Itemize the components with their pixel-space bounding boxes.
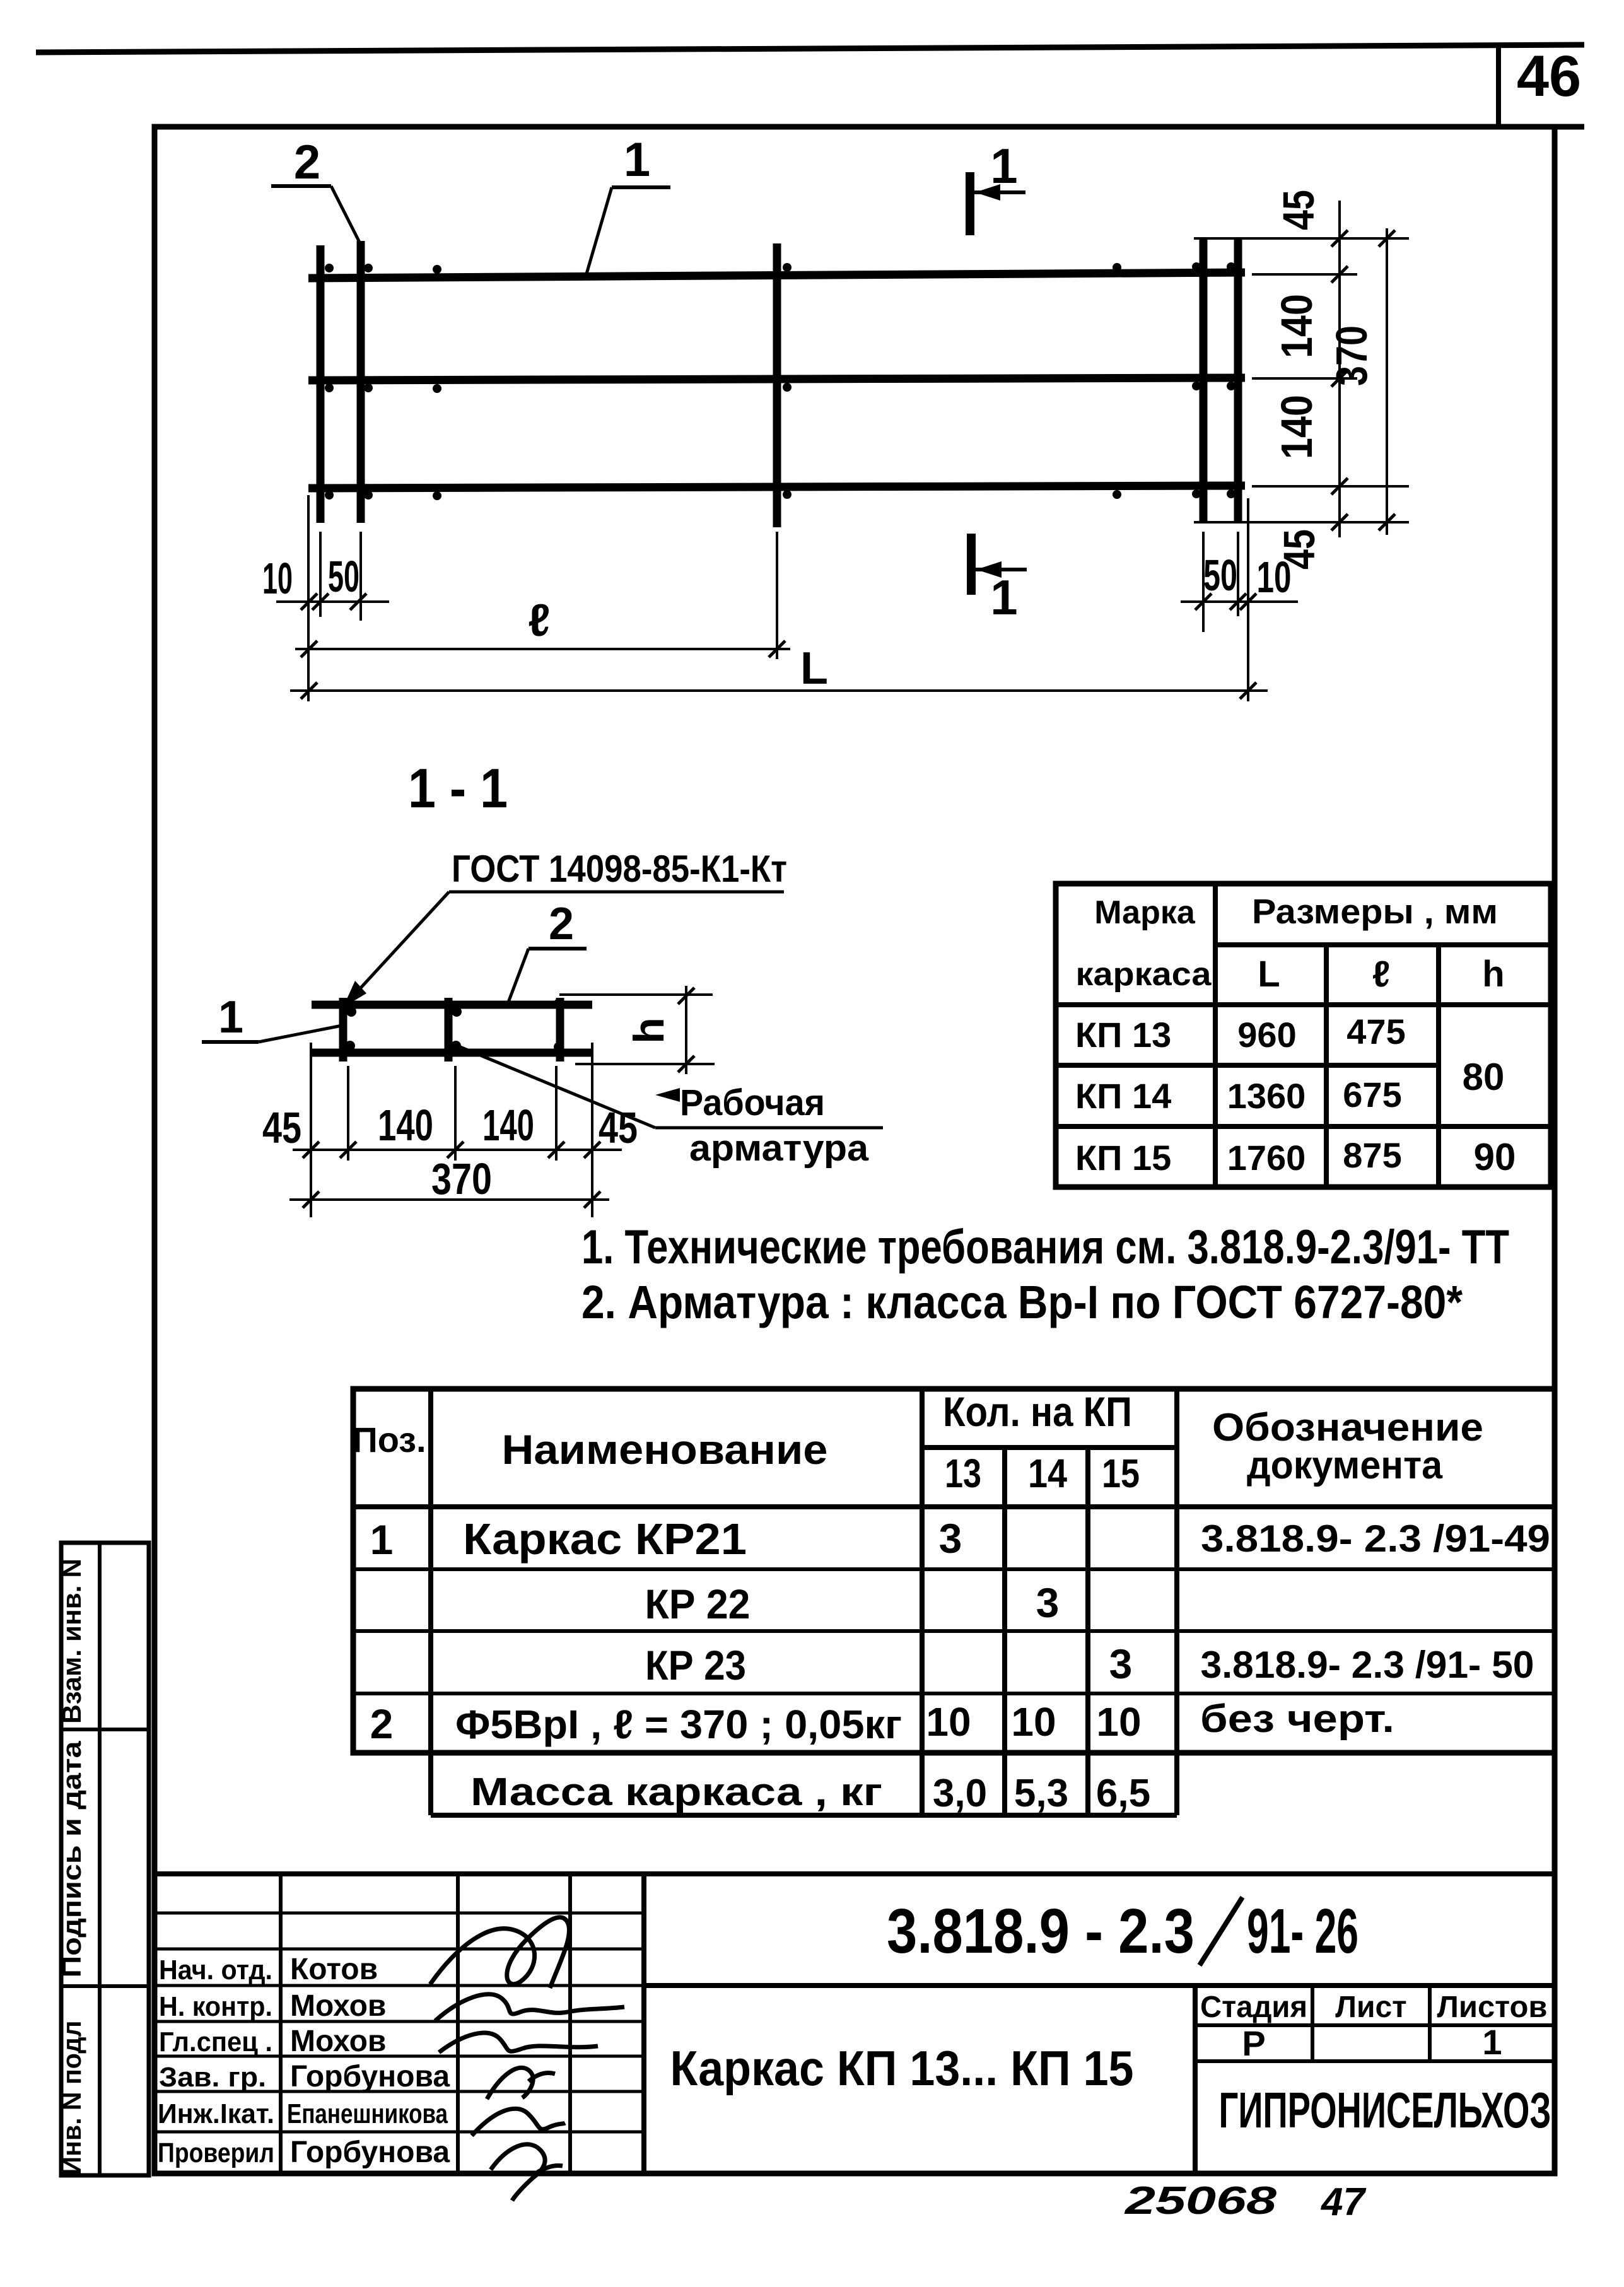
spec h massa bottom xyxy=(431,1813,1177,1818)
sheet top edge line xyxy=(36,45,1584,52)
svg-text:10: 10 xyxy=(1096,1699,1141,1745)
svg-text:Инж.Iкат.: Инж.Iкат. xyxy=(158,2098,274,2129)
svg-text:Н. контр.: Н. контр. xyxy=(159,1991,272,2022)
svg-text:2: 2 xyxy=(370,1700,394,1747)
svg-text:10: 10 xyxy=(1011,1699,1056,1745)
svg-text:КР 23: КР 23 xyxy=(645,1642,746,1688)
svg-text:3.818.9- 2.3 /91- 50: 3.818.9- 2.3 /91- 50 xyxy=(1201,1644,1534,1686)
svg-text:Епанешникова: Епанешникова xyxy=(287,2098,448,2129)
svg-text:ГОСТ 14098-85-К1-Кт: ГОСТ 14098-85-К1-Кт xyxy=(452,848,787,890)
svg-text:3.818.9- 2.3 /91-49: 3.818.9- 2.3 /91-49 xyxy=(1201,1518,1550,1560)
svg-text:Котов: Котов xyxy=(290,1953,378,1986)
svg-text:без черт.: без черт. xyxy=(1200,1697,1394,1741)
svg-text:Мохов: Мохов xyxy=(290,1989,386,2023)
svg-text:1 - 1: 1 - 1 xyxy=(408,757,508,819)
svg-text:Проверил: Проверил xyxy=(158,2138,274,2168)
stadia h-lines xyxy=(1195,2023,1555,2027)
spec h header bottom xyxy=(353,1504,1555,1509)
svg-text:Ф5ВрI , ℓ = 370 ; 0,05кг: Ф5ВрI , ℓ = 370 ; 0,05кг xyxy=(455,1702,902,1747)
spec h row3 xyxy=(353,1692,1555,1695)
h-line under doc number xyxy=(644,1983,1555,1988)
left strip outer box xyxy=(61,1543,149,2175)
sizes table h-line kp14 bottom xyxy=(1056,1124,1551,1129)
signature squiggle 3 xyxy=(439,2033,598,2052)
svg-text:14: 14 xyxy=(1028,1451,1067,1496)
section label 1 xyxy=(202,992,342,1043)
svg-text:КП 14: КП 14 xyxy=(1075,1076,1171,1116)
svg-text:2: 2 xyxy=(294,136,320,189)
svg-text:Нач. отд.: Нач. отд. xyxy=(159,1955,272,1986)
svg-text:h: h xyxy=(625,1017,673,1044)
cross rod center xyxy=(773,243,781,527)
dim line l (ell) xyxy=(295,595,790,657)
section dim line 45/140/140/45 xyxy=(293,1142,622,1158)
left strip divider h1 xyxy=(61,1728,149,1731)
svg-text:47: 47 xyxy=(1320,2180,1366,2224)
dim line 50/10 right xyxy=(1181,594,1298,610)
svg-text:1: 1 xyxy=(1482,2022,1502,2062)
sizes table v-line l/h xyxy=(1436,945,1441,1187)
svg-text:45: 45 xyxy=(599,1103,638,1152)
svg-text:L: L xyxy=(1258,954,1280,995)
svg-text:h: h xyxy=(1482,954,1504,995)
spec v 13/14 xyxy=(1002,1448,1007,1815)
rabochaya arrow xyxy=(655,1088,680,1102)
left strip divider h2 xyxy=(61,1984,149,1988)
svg-text:475: 475 xyxy=(1347,1012,1405,1051)
svg-text:1. Технические требования см.: 1. Технические требования см. 3.818.9-2.… xyxy=(581,1220,1509,1274)
svg-text:140: 140 xyxy=(1272,395,1321,459)
leader label 2 xyxy=(271,136,361,245)
section mark 1 bottom xyxy=(971,534,1027,625)
svg-text:1760: 1760 xyxy=(1227,1138,1306,1178)
svg-text:КП 13: КП 13 xyxy=(1075,1015,1171,1055)
h dimension extensions xyxy=(559,993,713,996)
dim line 10/50 left xyxy=(276,594,389,610)
svg-text:960: 960 xyxy=(1237,1015,1296,1055)
svg-text:ℓ: ℓ xyxy=(528,595,550,646)
cross rod left 1 xyxy=(317,245,325,523)
svg-text:25068: 25068 xyxy=(1125,2179,1277,2223)
svg-text:13: 13 xyxy=(945,1451,981,1496)
svg-text:арматура: арматура xyxy=(689,1128,869,1169)
svg-text:3,0: 3,0 xyxy=(933,1772,987,1815)
svg-text:91- 26: 91- 26 xyxy=(1247,1896,1358,1967)
svg-text:Каркас КР21: Каркас КР21 xyxy=(463,1514,747,1564)
svg-text:90: 90 xyxy=(1474,1136,1516,1178)
svg-text:Размеры , мм: Размеры , мм xyxy=(1252,892,1498,931)
svg-text:80: 80 xyxy=(1463,1056,1505,1098)
h dimension line xyxy=(685,986,687,1074)
cross rod right 1 xyxy=(1200,238,1208,522)
right outer dimension line 370 xyxy=(1379,228,1395,535)
svg-text:10: 10 xyxy=(1257,553,1292,602)
section dim line 370 xyxy=(289,1191,609,1208)
svg-text:Мохов: Мохов xyxy=(290,2025,386,2058)
svg-text:675: 675 xyxy=(1343,1075,1401,1114)
svg-text:1: 1 xyxy=(218,992,243,1043)
svg-text:L: L xyxy=(800,643,828,694)
bottom right extension lines xyxy=(1203,498,1248,701)
frame top extension over 46 box xyxy=(1555,124,1584,130)
svg-text:2: 2 xyxy=(549,899,574,949)
sig v-line 3 xyxy=(568,1874,572,2173)
right inner dimension line 45/140/140/45 xyxy=(1331,201,1348,537)
sizes table v-line L/l xyxy=(1324,945,1329,1187)
stadia v-lines xyxy=(1311,1986,1314,2061)
longitudinal bar 2 (middle) xyxy=(308,378,1245,380)
svg-text:50: 50 xyxy=(328,552,359,601)
svg-text:Поз.: Поз. xyxy=(352,1420,426,1459)
sig v-line 4 (separator to middle) xyxy=(641,1874,646,2173)
svg-text:140: 140 xyxy=(1272,294,1321,358)
dim line L xyxy=(290,643,1268,699)
svg-text:370: 370 xyxy=(1327,325,1376,386)
svg-text:875: 875 xyxy=(1343,1135,1401,1175)
svg-text:Масса каркаса , кг: Масса каркаса , кг xyxy=(470,1770,882,1814)
signature squiggle 6 xyxy=(491,2144,563,2201)
svg-text:45: 45 xyxy=(1274,190,1323,230)
svg-text:140: 140 xyxy=(482,1101,534,1150)
svg-text:Горбунова: Горбунова xyxy=(290,2136,450,2169)
left strip divider vertical xyxy=(98,1543,102,2175)
svg-text:Лист: Лист xyxy=(1335,1991,1406,2024)
svg-text:документа: документа xyxy=(1247,1444,1442,1487)
svg-text:3: 3 xyxy=(939,1515,962,1562)
signature squiggle 2 xyxy=(435,1994,624,2021)
svg-text:5,3: 5,3 xyxy=(1014,1772,1068,1815)
cross rod left 2 xyxy=(357,241,365,523)
svg-text:Зав. гр.: Зав. гр. xyxy=(159,2062,266,2093)
sizes table h-line razmery xyxy=(1215,942,1551,947)
svg-text:370: 370 xyxy=(431,1154,492,1203)
svg-text:Наименование: Наименование xyxy=(502,1426,828,1473)
weld dots middle bar xyxy=(325,382,1236,393)
section top bar xyxy=(312,1001,592,1009)
cross rod right 2 xyxy=(1234,238,1242,522)
svg-text:15: 15 xyxy=(1102,1451,1140,1496)
svg-text:Взам. инв. N: Взам. инв. N xyxy=(57,1559,86,1724)
svg-text:1: 1 xyxy=(624,133,650,187)
sig v-line 2 xyxy=(456,1874,460,2173)
svg-text:ГИПРОНИСЕЛЬХОЗ: ГИПРОНИСЕЛЬХОЗ xyxy=(1219,2082,1551,2138)
section rod 3 xyxy=(556,998,564,1062)
page number box divider xyxy=(1496,45,1501,127)
spec table outer xyxy=(353,1389,1555,1753)
svg-text:Рабочая: Рабочая xyxy=(680,1082,825,1123)
svg-text:45: 45 xyxy=(262,1103,301,1152)
svg-text:3: 3 xyxy=(1036,1579,1060,1626)
section weld dots xyxy=(345,998,564,1052)
section bottom extension lines xyxy=(311,1043,592,1217)
sig h-lines xyxy=(155,1913,644,2132)
weld spec underline xyxy=(449,891,784,894)
svg-text:КР 22: КР 22 xyxy=(645,1581,751,1627)
signature squiggle 4 xyxy=(487,2068,555,2099)
section label 2 xyxy=(508,899,587,1002)
svg-text:ℓ: ℓ xyxy=(1372,954,1390,995)
section mark 1 top xyxy=(970,138,1025,235)
rabochaya armatura underline xyxy=(655,1126,883,1130)
svg-text:1: 1 xyxy=(370,1516,394,1563)
svg-text:3.818.9 - 2.3: 3.818.9 - 2.3 xyxy=(887,1896,1195,1967)
svg-text:6,5: 6,5 xyxy=(1096,1772,1150,1815)
svg-text:Каркас КП 13... КП 15: Каркас КП 13... КП 15 xyxy=(670,2040,1134,2096)
svg-text:КП 15: КП 15 xyxy=(1075,1138,1171,1178)
spec h row1 xyxy=(353,1567,1555,1571)
svg-text:Обозначение: Обозначение xyxy=(1212,1406,1483,1449)
spec h row2 xyxy=(353,1629,1555,1633)
signature squiggle 1 xyxy=(430,1917,570,1988)
longitudinal bar 3 (bottom) xyxy=(308,486,1245,488)
svg-text:46: 46 xyxy=(1517,44,1581,108)
section rod 1 xyxy=(339,998,348,1062)
svg-text:Горбунова: Горбунова xyxy=(290,2060,450,2093)
section bottom bar xyxy=(312,1049,592,1057)
svg-text:2. Арматура : класса Вр-I по: 2. Арматура : класса Вр-I по ГОСТ 6727-8… xyxy=(581,1276,1463,1328)
svg-text:10: 10 xyxy=(262,554,293,603)
svg-text:Подпись и дата: Подпись и дата xyxy=(57,1741,86,1978)
svg-text:1360: 1360 xyxy=(1227,1076,1306,1116)
svg-text:3: 3 xyxy=(1109,1641,1133,1687)
signature squiggle 5 xyxy=(472,2109,565,2136)
svg-text:Марка: Марка xyxy=(1094,894,1196,931)
spec v naimenovanie xyxy=(920,1389,925,1815)
sizes table v-line marka xyxy=(1213,884,1218,1187)
svg-text:140: 140 xyxy=(378,1101,433,1150)
svg-text:Листов: Листов xyxy=(1437,1991,1548,2024)
spec h kol subheader xyxy=(922,1445,1177,1450)
weld spec leader xyxy=(348,892,449,1002)
weld dots top bar xyxy=(325,262,1236,274)
leader label 1 xyxy=(587,133,670,274)
svg-text:1: 1 xyxy=(990,570,1017,625)
spec v 15/oboznachenie xyxy=(1174,1389,1179,1815)
spec v poz xyxy=(428,1389,433,1815)
svg-text:Стадия: Стадия xyxy=(1200,1991,1307,2024)
bottom left extension lines xyxy=(308,495,777,701)
section rod 2 xyxy=(445,998,453,1062)
title block top line xyxy=(155,1871,1555,1876)
spec v 14/15 xyxy=(1085,1448,1090,1815)
sizes table h-line kp13 bottom xyxy=(1056,1063,1439,1068)
svg-text:Р: Р xyxy=(1242,2023,1265,2063)
longitudinal bar 1 (top) xyxy=(308,272,1245,278)
svg-text:Гл.спец .: Гл.спец . xyxy=(159,2027,272,2057)
svg-text:50: 50 xyxy=(1203,551,1237,600)
svg-text:каркаса: каркаса xyxy=(1076,956,1212,993)
sizes table h-line header bottom xyxy=(1056,1002,1551,1007)
right side extension lines xyxy=(1194,238,1409,522)
weld dots bottom bar xyxy=(325,489,1236,500)
svg-text:Кол. на КП: Кол. на КП xyxy=(943,1388,1132,1435)
svg-text:Инв. N подл: Инв. N подл xyxy=(57,2021,86,2175)
sizes table outer xyxy=(1056,884,1551,1187)
v-line karkas/stadia xyxy=(1193,1986,1198,2173)
drawing frame xyxy=(155,127,1555,2173)
svg-text:10: 10 xyxy=(926,1699,971,1745)
svg-text:1: 1 xyxy=(990,138,1017,194)
sig v-line 1 xyxy=(279,1874,283,2173)
rabochaya armatura leader xyxy=(460,1047,655,1128)
